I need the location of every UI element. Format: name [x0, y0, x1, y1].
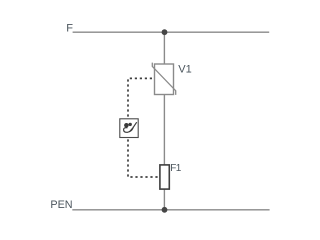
disconnector indicator icon	[124, 122, 137, 132]
node junction on F line	[162, 29, 168, 35]
wire F conductor (top horizontal)	[73, 31, 270, 33]
dashed signalling link (V1 left to disconnector box to F1 left)	[128, 78, 160, 177]
disconnector indicator box	[120, 119, 138, 138]
svg-text:F1: F1	[170, 163, 181, 174]
wire vertical branch F to PEN	[163, 32, 165, 210]
node junction on PEN line	[162, 207, 168, 213]
svg-text:F: F	[66, 22, 73, 34]
fuse F1 body	[160, 165, 169, 189]
varistor V1 diagonal stroke	[152, 63, 175, 95]
svg-text:V1: V1	[178, 63, 191, 75]
svg-text:PEN: PEN	[50, 199, 72, 211]
varistor V1 body	[155, 64, 174, 95]
wire PEN conductor (bottom horizontal)	[72, 209, 269, 211]
